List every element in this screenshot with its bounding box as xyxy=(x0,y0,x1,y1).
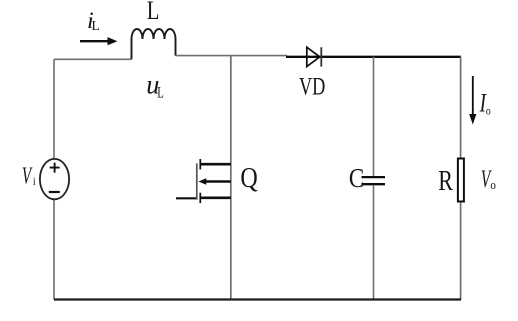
diode VD cathode bar xyxy=(320,47,322,66)
wire top-left horizontal (source to inductor) xyxy=(54,58,132,60)
svg-text:i: i xyxy=(33,175,36,188)
svg-text:o: o xyxy=(486,105,491,118)
wire left vertical (top rail to source +) xyxy=(53,59,55,158)
label VD xyxy=(299,73,325,100)
MOSFET Q gate lead xyxy=(176,197,196,199)
label Vo xyxy=(481,164,492,193)
svg-text:L: L xyxy=(157,83,164,100)
voltage source Vi (ellipse with + -) xyxy=(40,159,69,199)
diode VD triangle xyxy=(307,47,320,66)
wire right vertical top (rail corner to resistor) xyxy=(460,57,462,158)
svg-text:o: o xyxy=(490,177,496,192)
label iL xyxy=(87,8,94,33)
MOSFET Q gate/channel vertical line xyxy=(196,163,198,199)
label C xyxy=(349,164,364,193)
resistor R body xyxy=(458,159,464,202)
wire MOSFET drain/source vertical (top rail to bottom rail) xyxy=(230,56,232,300)
diode VD lead (thick) xyxy=(286,56,461,58)
capacitor C plates xyxy=(362,177,386,184)
wire left vertical (source - to bottom rail) xyxy=(53,200,55,300)
svg-text:R: R xyxy=(438,164,453,197)
wire top mid rail (inductor to diode) xyxy=(176,55,288,57)
svg-text:VD: VD xyxy=(299,73,325,100)
svg-text:Q: Q xyxy=(240,161,257,194)
svg-text:L: L xyxy=(92,18,100,33)
wire right vertical bottom (resistor to bottom rail) xyxy=(460,202,462,299)
label uL xyxy=(146,69,159,99)
wire capacitor branch bottom xyxy=(373,185,375,299)
label Q xyxy=(240,161,257,194)
wire bottom rail xyxy=(54,298,461,300)
svg-text:V: V xyxy=(22,163,33,189)
label L xyxy=(147,0,160,25)
label Io xyxy=(479,87,487,117)
MOSFET Q drain bar xyxy=(200,163,231,166)
MOSFET Q body bar with arrow xyxy=(198,178,230,184)
MOSFET Q drain tick xyxy=(199,159,201,169)
wire capacitor branch top xyxy=(373,57,375,176)
MOSFET Q source bar xyxy=(200,197,231,200)
svg-text:C: C xyxy=(349,164,364,193)
svg-text:L: L xyxy=(147,0,160,25)
label R xyxy=(438,164,453,197)
current arrow iL xyxy=(80,37,118,45)
current arrow Io xyxy=(469,76,476,125)
label Vi xyxy=(22,163,33,189)
MOSFET Q source tick xyxy=(199,193,201,203)
inductor L xyxy=(132,29,176,59)
